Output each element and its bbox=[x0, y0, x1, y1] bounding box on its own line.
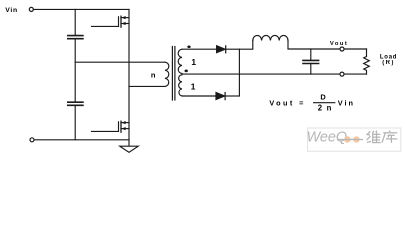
capacitor C3 output bbox=[303, 60, 319, 63]
capacitor C2 bbox=[68, 102, 83, 105]
node Vout bottom terminal bbox=[340, 72, 344, 76]
wire rectified node vertical bbox=[238, 49, 240, 96]
wire top rail bbox=[34, 8, 129, 10]
svg-text:1: 1 bbox=[191, 82, 196, 92]
wire D1 cathode to junction bbox=[226, 48, 240, 50]
wire capacitor midpoint to primary top bbox=[75, 61, 165, 63]
svg-text:2: 2 bbox=[318, 103, 323, 112]
wire output capacitor branch top bbox=[310, 49, 312, 60]
transformer T1 core bbox=[172, 47, 175, 101]
wire bottom rail bbox=[34, 139, 129, 141]
watermark glyph 维 bbox=[367, 131, 381, 143]
svg-text:WeeQ: WeeQ bbox=[307, 130, 348, 146]
svg-text:n: n bbox=[327, 103, 332, 112]
watermark Q tail strike-through bbox=[338, 139, 364, 141]
svg-text:(R): (R) bbox=[382, 60, 395, 66]
transistor Q2 lower MOSFET bbox=[92, 121, 130, 132]
wire inductor to output top rail bbox=[288, 41, 367, 50]
wire bridge midpoint to primary bottom bbox=[129, 85, 165, 87]
node bottom input terminal bbox=[30, 138, 34, 142]
svg-text:Vin: Vin bbox=[5, 7, 18, 14]
svg-text:n: n bbox=[151, 71, 156, 80]
wire secondary bottom to diode D2 bbox=[182, 95, 216, 97]
watermark o (peach) bbox=[344, 136, 351, 142]
transformer T1 primary winding n bbox=[165, 62, 169, 86]
polarity dot center tap bbox=[185, 70, 188, 73]
transformer T1 secondary upper winding bbox=[178, 49, 182, 73]
transistor Q1 upper MOSFET bbox=[92, 16, 130, 27]
capacitor C1 bbox=[68, 36, 83, 39]
wire junction to inductor bbox=[239, 41, 252, 50]
wire secondary top to diode D1 bbox=[182, 48, 216, 50]
wire half-bridge vertical branch bbox=[128, 9, 130, 146]
formula fraction bar bbox=[313, 102, 335, 104]
wire output bottom rail (center tap return) bbox=[182, 73, 367, 75]
wire D2 cathode to junction bbox=[225, 95, 239, 97]
wire input capacitor branch bbox=[74, 9, 76, 35]
node Vout top terminal bbox=[340, 47, 344, 51]
polarity dot secondary top bbox=[187, 45, 190, 48]
svg-text:D: D bbox=[320, 93, 326, 102]
svg-text:1: 1 bbox=[191, 57, 196, 67]
wire output capacitor branch bottom bbox=[310, 64, 312, 75]
diode D2 bbox=[216, 93, 225, 100]
wire between capacitors bbox=[74, 39, 76, 102]
watermark o (peach) bbox=[353, 136, 360, 142]
diode D1 bbox=[217, 46, 226, 53]
inductor L1 bbox=[253, 35, 288, 40]
svg-text:Vin: Vin bbox=[338, 99, 355, 108]
svg-text:Vout: Vout bbox=[330, 41, 348, 47]
watermark glyph 库 bbox=[382, 130, 398, 142]
wire C2 to bottom rail bbox=[74, 105, 76, 140]
node Vin terminal bbox=[29, 7, 33, 11]
watermark box bbox=[308, 128, 401, 151]
transformer T1 secondary lower winding bbox=[179, 75, 182, 96]
svg-text:Vout =: Vout = bbox=[269, 99, 305, 108]
ground bbox=[120, 146, 138, 152]
resistor R load bbox=[364, 49, 370, 74]
